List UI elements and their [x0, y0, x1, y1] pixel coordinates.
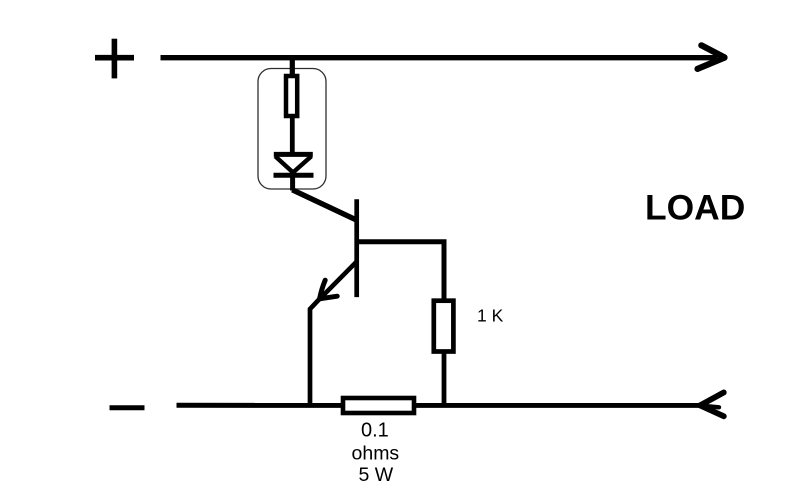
svg-text:ohms: ohms	[352, 443, 400, 465]
svg-text:1 K: 1 K	[477, 306, 504, 326]
svg-text:5 W: 5 W	[359, 464, 394, 486]
svg-text:0.1: 0.1	[361, 420, 389, 442]
svg-text:LOAD: LOAD	[645, 188, 745, 228]
